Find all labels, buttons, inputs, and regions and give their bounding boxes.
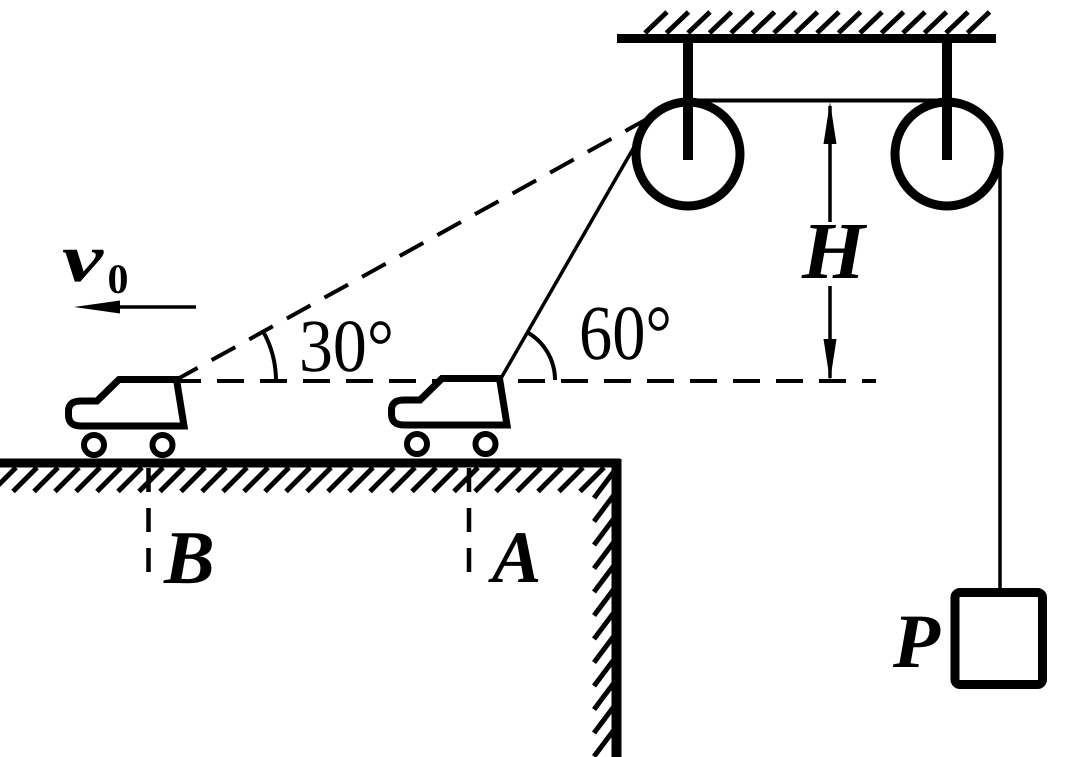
svg-text:P: P xyxy=(892,598,941,684)
svg-text:A: A xyxy=(488,517,541,599)
svg-text:30°: 30° xyxy=(299,305,394,388)
svg-text:60°: 60° xyxy=(579,289,672,376)
svg-text:B: B xyxy=(163,516,215,600)
svg-text:H: H xyxy=(801,206,868,296)
svg-text:v: v xyxy=(62,220,104,296)
